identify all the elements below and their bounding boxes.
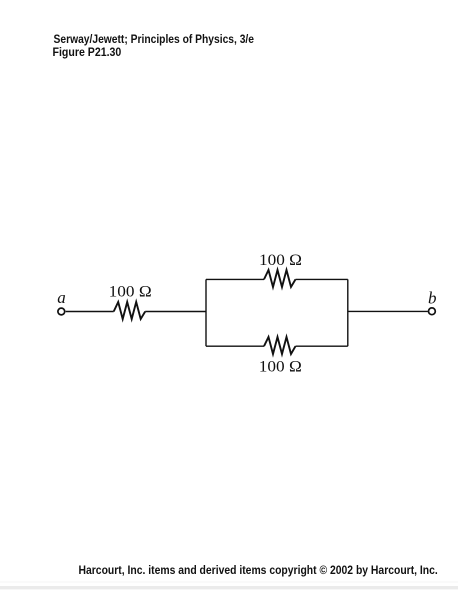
bottom branch left wire (206, 345, 264, 347)
top branch right wire (296, 278, 348, 280)
svg-text:Serway/Jewett; Principles of P: Serway/Jewett; Principles of Physics, 3/… (54, 34, 255, 46)
svg-text:b: b (428, 288, 437, 307)
svg-text:100 Ω: 100 Ω (259, 358, 302, 375)
wire a to R1 (66, 311, 114, 313)
wire right junction to b (348, 310, 428, 312)
svg-text:a: a (57, 288, 66, 307)
terminal b (429, 308, 436, 315)
right junction vertical wire (347, 279, 349, 346)
wire R1 to left junction (145, 311, 206, 313)
resistor R2 (264, 270, 296, 287)
svg-text:Harcourt, Inc. items and deriv: Harcourt, Inc. items and derived items c… (79, 565, 438, 577)
terminal a (58, 308, 65, 315)
resistor R3 (264, 337, 296, 354)
svg-text:100 Ω: 100 Ω (109, 283, 152, 300)
left junction vertical wire (205, 279, 207, 346)
bottom branch right wire (296, 345, 348, 347)
header title text (53, 34, 255, 59)
svg-text:100 Ω: 100 Ω (259, 252, 302, 269)
bottom page edge shading (0, 582, 458, 583)
svg-text:Figure P21.30: Figure P21.30 (53, 47, 122, 59)
top branch left wire (206, 278, 264, 280)
resistor R1 (114, 302, 146, 319)
